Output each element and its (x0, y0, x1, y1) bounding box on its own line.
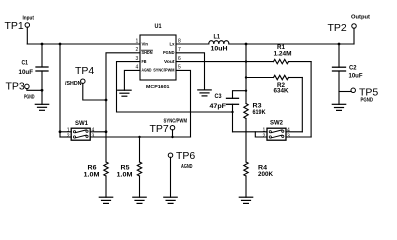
svg-text:FB: FB (142, 59, 147, 65)
wire R2 right to SW2 pin4 (301, 78, 303, 132)
svg-text:3: 3 (92, 133, 95, 139)
svg-text:U1: U1 (155, 24, 163, 30)
op-amp U1 MCP1601 body (140, 35, 176, 80)
svg-text:R4: R4 (258, 166, 268, 172)
test point TP6 (168, 153, 173, 158)
wire SW1 pin4 lead (90, 131, 106, 133)
wire TP5 stub to C2 net (339, 91, 351, 93)
svg-text:AGND: AGND (142, 68, 152, 74)
resistor R2 (246, 77, 274, 79)
svg-text:TP2: TP2 (328, 22, 347, 34)
svg-text:R1: R1 (277, 45, 286, 51)
svg-text:TP6: TP6 (176, 150, 195, 162)
svg-text:R3: R3 (253, 104, 263, 110)
test point TP3 (25, 84, 30, 89)
svg-text:2: 2 (67, 133, 70, 139)
junction C3 branch (245, 90, 247, 92)
capacitor C3 (233, 91, 247, 99)
junction FB line on C3 branch (231, 111, 233, 113)
resistor R4 (245, 132, 247, 162)
wire U1 pin6 Vout to feedback node (176, 61, 246, 63)
capacitor C1 (41, 44, 43, 67)
svg-text:10uF: 10uF (349, 74, 363, 80)
svg-text:SW2: SW2 (270, 121, 284, 127)
wire TP2 to output rail (353, 28, 355, 44)
resistor R1 (246, 61, 274, 63)
test point TP5 (351, 88, 356, 93)
svg-text:8: 8 (178, 38, 181, 44)
svg-text:47pF: 47pF (210, 104, 227, 110)
test point TP2 (352, 24, 357, 29)
wire SW2 pin3 lead (286, 136, 311, 138)
wire U1 pin5 SYNC/PWM down (176, 70, 191, 137)
svg-text:3: 3 (287, 133, 290, 139)
wire U1 pin3 FB net to C3 (117, 62, 233, 112)
svg-text:3: 3 (136, 56, 139, 62)
svg-text:MCP1601: MCP1601 (146, 84, 170, 90)
svg-text:5: 5 (178, 65, 181, 71)
junction Vout pin / R1 left (245, 60, 247, 62)
svg-text:TP4: TP4 (75, 65, 94, 77)
svg-text:PGND: PGND (361, 97, 374, 103)
junction R2 left (245, 76, 247, 78)
svg-text:Output: Output (351, 15, 370, 21)
switch SW1 (71, 128, 90, 140)
svg-text:1.0M: 1.0M (117, 173, 133, 179)
svg-text:C2: C2 (349, 66, 357, 72)
svg-text:/SHDN: /SHDN (65, 81, 82, 87)
wire TP6 to ground (170, 157, 172, 197)
wire TP1 to input rail (26, 27, 28, 44)
svg-text:6: 6 (178, 56, 181, 62)
svg-text:Vout: Vout (164, 59, 175, 65)
wire input rail left (TP1 to U1 pin 1) (27, 43, 140, 45)
ground below R6 (99, 196, 112, 198)
junction C2 on rail (338, 43, 341, 46)
svg-text:SYNC/PWM: SYNC/PWM (164, 119, 188, 125)
svg-text:R6: R6 (88, 166, 98, 172)
resistor R3 (244, 104, 248, 119)
test point TP7 (170, 125, 175, 130)
svg-text:R5: R5 (121, 166, 131, 172)
svg-text:TP1: TP1 (5, 20, 24, 32)
junction TP3 wire on C1 branch (41, 89, 44, 92)
junction SW1 branch on rail (59, 43, 62, 46)
junction VOUT rail (245, 43, 248, 46)
wire SYNC/PWM line (90, 136, 190, 138)
ground below C1 (35, 103, 48, 105)
svg-text:Lx: Lx (170, 41, 175, 47)
inductor L1 (209, 41, 229, 44)
svg-text:PGND: PGND (163, 50, 175, 56)
wire TP3 to C1 net (27, 89, 42, 91)
svg-text:PGND: PGND (24, 94, 35, 100)
wire SW2 pin2 jog (255, 132, 267, 137)
wire output rail L1 to TP2 (229, 43, 354, 45)
capacitor C2 (338, 44, 340, 67)
svg-text:L1: L1 (214, 35, 221, 41)
svg-text:4: 4 (136, 65, 139, 71)
svg-text:SYNC/PWM: SYNC/PWM (153, 68, 174, 74)
wire U1 pin8 Lx to L1 (176, 43, 209, 45)
svg-text:TP7: TP7 (150, 123, 169, 135)
svg-text:200K: 200K (258, 172, 274, 178)
ground below R5 (133, 196, 146, 198)
switch SW2 (267, 128, 286, 140)
svg-text:C1: C1 (22, 61, 29, 67)
svg-text:2: 2 (263, 133, 266, 139)
junction TP4 on SHDN net (105, 99, 108, 102)
junction SW1 pin4 on SHDN net (105, 130, 108, 133)
wire VIN branch to SW1 (59, 44, 61, 137)
svg-text:619K: 619K (253, 110, 267, 116)
wire U1 pin2 SHDN net (106, 53, 140, 162)
svg-text:SW1: SW1 (75, 121, 89, 127)
wire TP4 to SHDN net (83, 83, 106, 100)
svg-text:AGND: AGND (181, 164, 193, 170)
svg-text:10uF: 10uF (19, 70, 34, 76)
wire TP7 to SYNC line (172, 130, 174, 137)
junction R5 on SYNC line (138, 136, 140, 138)
svg-text:C3: C3 (215, 94, 223, 100)
svg-text:TP3: TP3 (6, 81, 25, 93)
junction C1 on rail (41, 43, 44, 46)
test point TP1 (25, 23, 30, 28)
svg-text:SHDN: SHDN (142, 50, 153, 56)
wire U1 pin4 AGND (124, 70, 140, 90)
wire SW1 pin2 lead (60, 136, 71, 138)
U1 SHDN overbar (142, 49, 153, 51)
wire FB node to SW2 (233, 131, 268, 133)
ground below U1 pin 7 (PGND) (198, 89, 211, 91)
resistor R6 (104, 162, 108, 176)
ground below U1 pin 4 (AGND) (118, 89, 131, 91)
svg-text:1.24M: 1.24M (274, 51, 292, 57)
svg-text:1.0M: 1.0M (84, 173, 100, 179)
resistor R5 (139, 137, 141, 162)
wire U1 pin7 PGND to ground (176, 53, 205, 90)
test point TP4 (81, 79, 86, 84)
junction TP7 on SYNC line (171, 136, 173, 138)
wire R1 right to SW2 pin3 (310, 62, 312, 137)
wire VOUT divider vertical (245, 44, 247, 104)
wire SW1 pin1 lead (60, 131, 71, 133)
ground below C2 (332, 103, 345, 105)
svg-text:1: 1 (136, 38, 139, 44)
wire SW2 pin4 lead (286, 131, 302, 133)
ground below R4 (239, 196, 252, 198)
ground below TP6 (164, 196, 177, 198)
junction SW1 pin 1 tee (59, 130, 62, 133)
svg-text:Input: Input (23, 16, 35, 22)
svg-text:Vin: Vin (142, 41, 149, 47)
svg-text:10uH: 10uH (211, 47, 228, 53)
svg-text:2: 2 (136, 47, 139, 53)
svg-text:7: 7 (178, 47, 181, 53)
svg-text:634K: 634K (274, 89, 290, 95)
